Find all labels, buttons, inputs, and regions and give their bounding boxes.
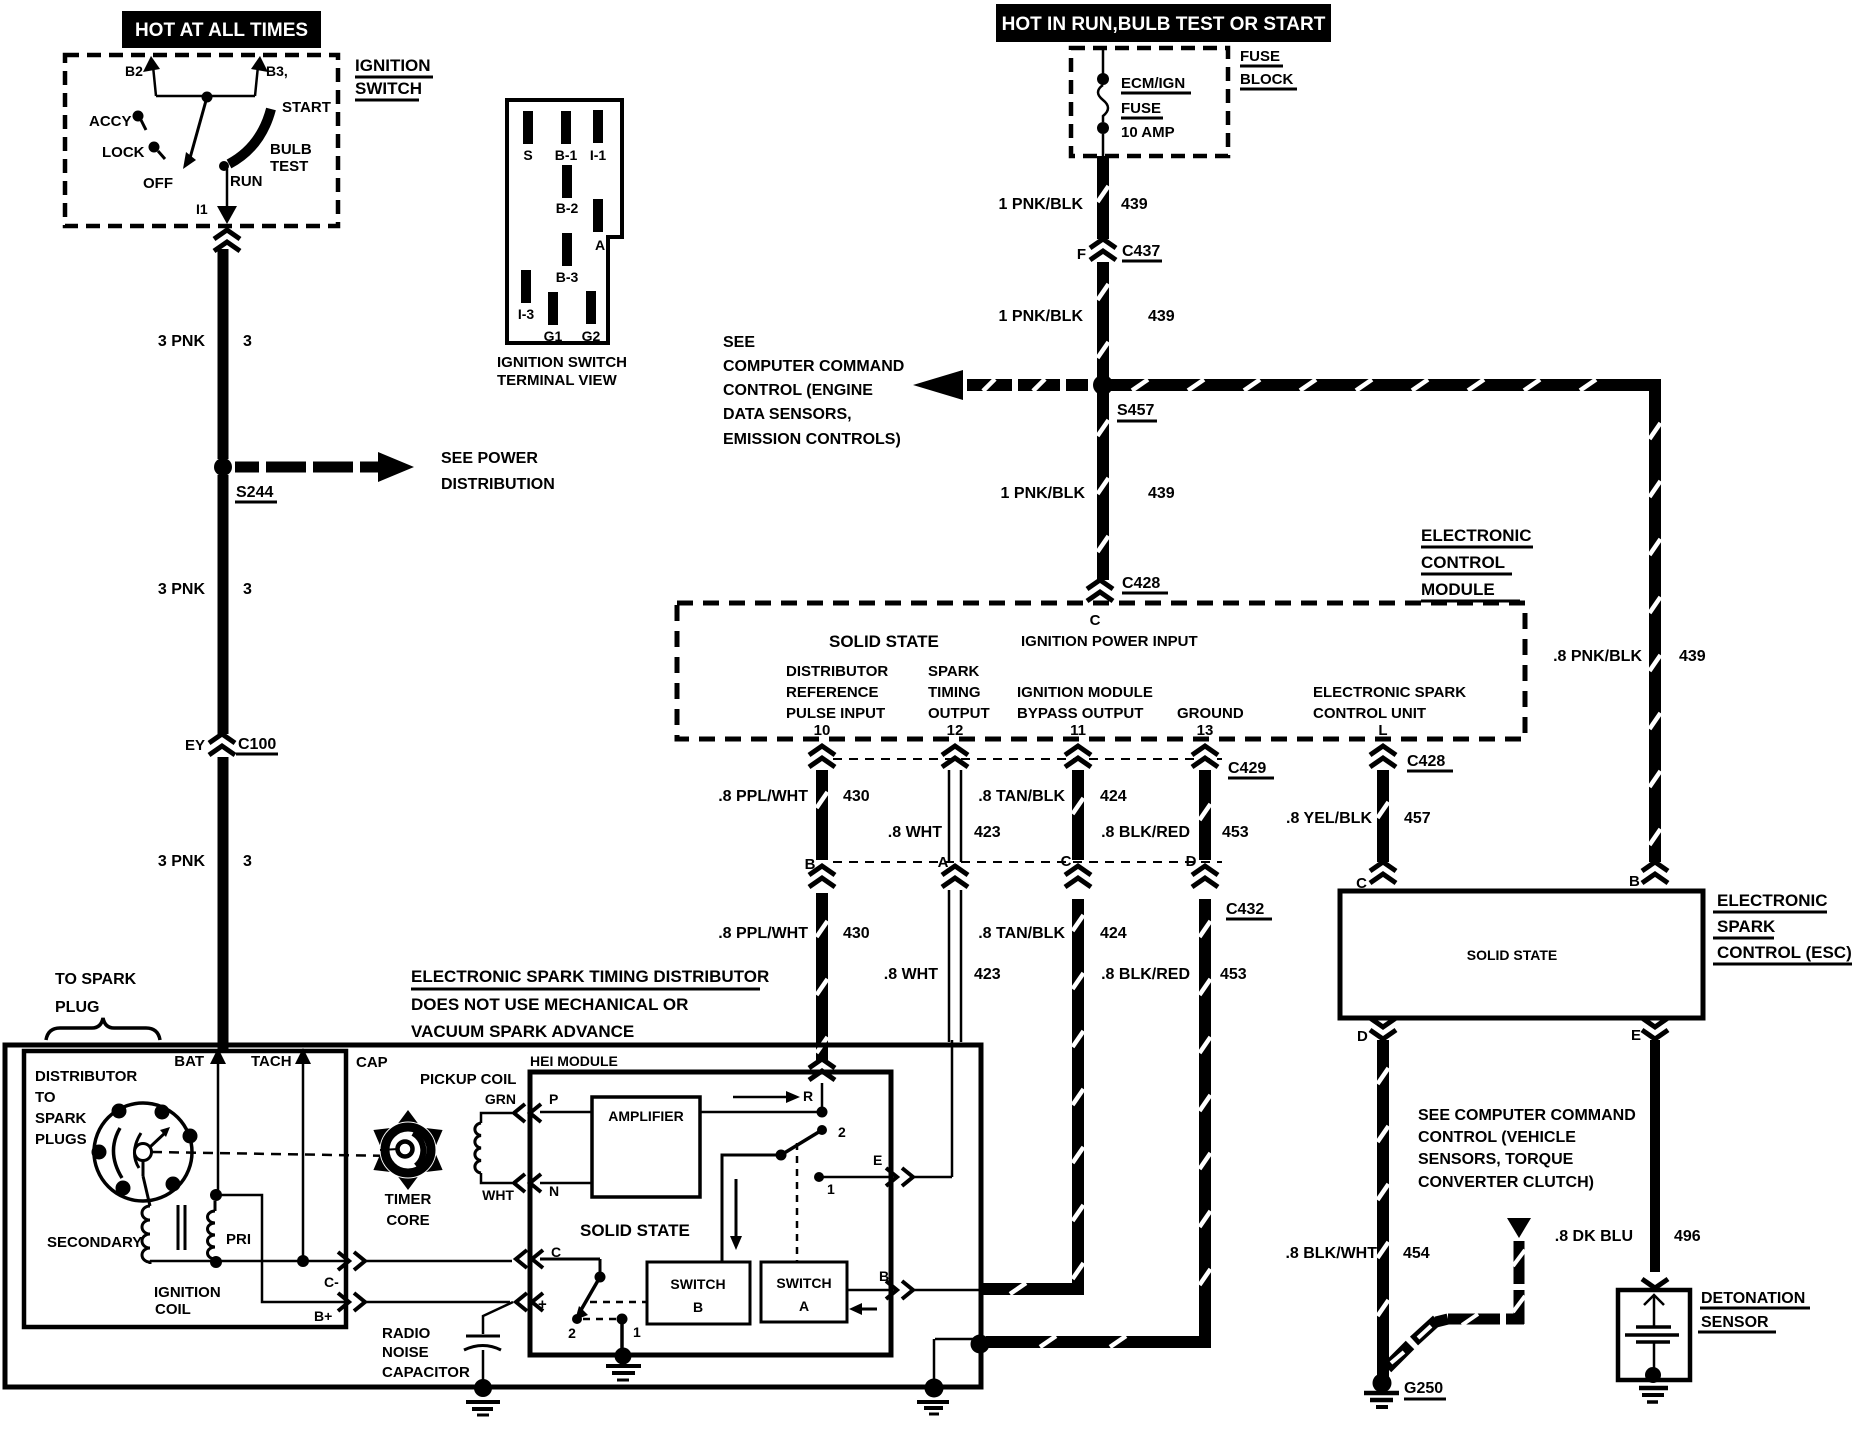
- svg-text:3: 3: [243, 853, 252, 870]
- svg-text:GRN: GRN: [485, 1091, 516, 1107]
- svg-text:B-3: B-3: [556, 269, 579, 285]
- svg-text:1 PNK/BLK: 1 PNK/BLK: [999, 308, 1084, 325]
- svg-text:HOT IN RUN,BULB TEST OR START: HOT IN RUN,BULB TEST OR START: [1002, 14, 1326, 35]
- svg-text:TACH: TACH: [251, 1053, 292, 1070]
- HEI pin C: [516, 1244, 600, 1275]
- svg-text:OUTPUT: OUTPUT: [928, 705, 990, 722]
- wire 439 horizontal run to ESC: [1093, 375, 1706, 862]
- svg-text:EY: EY: [185, 737, 205, 754]
- svg-text:B3,: B3,: [266, 63, 288, 79]
- ignition coil and cap box: [24, 1051, 346, 1327]
- wire 439 segment 3: [1001, 392, 1175, 580]
- terminal G1 of ignition switch connector: [544, 292, 563, 344]
- svg-text:TERMINAL VIEW: TERMINAL VIEW: [497, 372, 618, 389]
- svg-text:IGNITION POWER INPUT: IGNITION POWER INPUT: [1021, 633, 1198, 650]
- svg-text:SWITCH: SWITCH: [776, 1275, 831, 1291]
- svg-text:HOT AT ALL TIMES: HOT AT ALL TIMES: [135, 20, 308, 41]
- pickup coil: [420, 1071, 516, 1203]
- svg-text:DATA SENSORS,: DATA SENSORS,: [723, 406, 852, 423]
- svg-text:3 PNK: 3 PNK: [158, 853, 206, 870]
- dashed arrow to power distribution: [235, 452, 414, 482]
- connector C432 row: [805, 853, 1272, 919]
- svg-text:PICKUP COIL: PICKUP COIL: [420, 1071, 516, 1088]
- svg-text:3 PNK: 3 PNK: [158, 333, 206, 350]
- svg-text:F: F: [1077, 246, 1086, 263]
- svg-text:CONTROL (VEHICLE: CONTROL (VEHICLE: [1418, 1129, 1576, 1146]
- terminal BAT: [174, 1048, 226, 1192]
- svg-text:WHT: WHT: [482, 1187, 514, 1203]
- svg-text:SPARK: SPARK: [1717, 917, 1776, 936]
- svg-text:C428: C428: [1407, 753, 1445, 770]
- svg-text:E: E: [873, 1152, 882, 1168]
- svg-text:START: START: [282, 99, 331, 116]
- svg-text:SOLID STATE: SOLID STATE: [1467, 947, 1557, 963]
- distributor housing ground: [917, 1335, 990, 1415]
- svg-text:3 PNK: 3 PNK: [158, 581, 206, 598]
- svg-text:I-3: I-3: [518, 306, 535, 322]
- svg-text:G1: G1: [544, 328, 563, 344]
- contact OFF: [143, 175, 173, 192]
- svg-text:PLUGS: PLUGS: [35, 1131, 87, 1148]
- svg-text:D: D: [1186, 853, 1197, 870]
- svg-text:SOLID STATE: SOLID STATE: [580, 1221, 690, 1240]
- splice S457: [1094, 376, 1157, 421]
- svg-text:10: 10: [814, 722, 831, 739]
- HEI module box: [530, 1053, 891, 1355]
- ESC pin E: [1631, 1018, 1668, 1044]
- svg-text:SEE: SEE: [723, 334, 755, 351]
- svg-text:SEE POWER: SEE POWER: [441, 450, 538, 467]
- svg-text:3: 3: [243, 333, 252, 350]
- svg-text:ELECTRONIC: ELECTRONIC: [1421, 526, 1532, 545]
- svg-text:C429: C429: [1228, 760, 1266, 777]
- svg-text:B: B: [693, 1299, 703, 1315]
- connector C428 at ECM: [1087, 575, 1168, 601]
- svg-text:10 AMP: 10 AMP: [1121, 124, 1175, 141]
- svg-text:C: C: [1061, 853, 1072, 870]
- HEI pin plus: [516, 1293, 647, 1313]
- ECM pin 12 spark timing output: [928, 663, 990, 739]
- svg-text:ACCY: ACCY: [89, 113, 132, 130]
- svg-text:TO SPARK: TO SPARK: [55, 971, 137, 988]
- svg-text:D: D: [1357, 1028, 1368, 1045]
- svg-text:1: 1: [633, 1324, 641, 1340]
- label SEE POWER DISTRIBUTION: [441, 450, 555, 493]
- ignition switch terminal B2: [125, 56, 160, 96]
- terminal B-2 of ignition switch connector: [556, 165, 579, 216]
- svg-text:ELECTRONIC SPARK TIMING DISTRI: ELECTRONIC SPARK TIMING DISTRIBUTOR: [411, 967, 769, 986]
- svg-text:SENSOR: SENSOR: [1701, 1314, 1769, 1331]
- wire 453 lower: [986, 899, 1247, 1347]
- switch B box: [647, 1262, 750, 1324]
- svg-text:NOISE: NOISE: [382, 1344, 429, 1361]
- svg-text:439: 439: [1148, 485, 1175, 502]
- svg-text:SEE COMPUTER COMMAND: SEE COMPUTER COMMAND: [1418, 1107, 1636, 1124]
- svg-text:496: 496: [1674, 1228, 1701, 1245]
- wire HEI pin E: [823, 1040, 952, 1186]
- terminal S of ignition switch connector: [523, 111, 533, 163]
- svg-text:N: N: [549, 1183, 559, 1199]
- label SEE COMPUTER COMMAND CONTROL ENGINE: [723, 334, 904, 448]
- connector at ignition switch output: [214, 230, 240, 251]
- svg-text:E: E: [1631, 1027, 1641, 1044]
- svg-text:A: A: [799, 1298, 809, 1314]
- contact RUN: [219, 161, 263, 208]
- terminal B-1 of ignition switch connector: [555, 111, 578, 163]
- wire 454: [1285, 1040, 1429, 1377]
- HEI pin R arrow and label: [733, 1088, 813, 1104]
- pickup coil connector GRN: [514, 1104, 541, 1122]
- svg-text:11: 11: [1070, 722, 1086, 739]
- distributor cap with rotor: [92, 1103, 198, 1201]
- svg-text:.8 TAN/BLK: .8 TAN/BLK: [978, 788, 1065, 805]
- svg-text:.8 WHT: .8 WHT: [884, 966, 938, 983]
- svg-text:C437: C437: [1122, 243, 1160, 260]
- label IGNITION COIL: [154, 1284, 221, 1318]
- power feed banner HOT IN RUN BULB TEST OR START: [996, 4, 1331, 42]
- coil core: [178, 1205, 185, 1250]
- svg-text:FUSE: FUSE: [1121, 100, 1161, 117]
- svg-text:C432: C432: [1226, 901, 1264, 918]
- svg-text:454: 454: [1403, 1245, 1430, 1262]
- contact LOCK: [102, 142, 165, 162]
- svg-text:BAT: BAT: [174, 1053, 204, 1070]
- svg-text:439: 439: [1121, 196, 1148, 213]
- svg-text:ECM/IGN: ECM/IGN: [1121, 75, 1185, 92]
- ignition switch terminal B3: [251, 56, 288, 96]
- svg-text:CONTROL UNIT: CONTROL UNIT: [1313, 705, 1426, 722]
- svg-text:CORE: CORE: [386, 1212, 429, 1229]
- svg-text:.8 YEL/BLK: .8 YEL/BLK: [1286, 810, 1372, 827]
- label ELECTRONIC CONTROL MODULE: [1421, 526, 1533, 601]
- svg-text:.8 WHT: .8 WHT: [888, 824, 942, 841]
- ECM pin L electronic spark control unit: [1313, 684, 1466, 739]
- svg-text:.8 PPL/WHT: .8 PPL/WHT: [718, 788, 808, 805]
- svg-text:G250: G250: [1404, 1380, 1443, 1397]
- HEI pin N: [540, 1183, 592, 1199]
- svg-text:453: 453: [1222, 824, 1249, 841]
- svg-text:DISTRIBUTION: DISTRIBUTION: [441, 476, 555, 493]
- label BULB TEST: [270, 141, 312, 175]
- svg-text:.8 DK BLU: .8 DK BLU: [1555, 1228, 1633, 1245]
- label ELECTRONIC SPARK CONTROL ESC: [1713, 891, 1852, 964]
- caption ignition switch terminal view: [497, 354, 627, 389]
- svg-text:DISTRIBUTOR: DISTRIBUTOR: [786, 663, 888, 680]
- svg-text:S: S: [523, 147, 532, 163]
- svg-text:IGNITION: IGNITION: [355, 56, 431, 75]
- svg-text:ELECTRONIC: ELECTRONIC: [1717, 891, 1828, 910]
- svg-text:S244: S244: [236, 484, 273, 501]
- svg-text:CONVERTER CLUTCH): CONVERTER CLUTCH): [1418, 1174, 1594, 1191]
- label IGNITION SWITCH: [355, 56, 433, 100]
- svg-text:CAP: CAP: [356, 1054, 388, 1071]
- terminal I1 arrow: [196, 201, 237, 224]
- svg-text:TEST: TEST: [270, 158, 308, 175]
- wire 424 lower: [978, 899, 1127, 1294]
- off-page arrow to computer command control: [1387, 1218, 1531, 1368]
- svg-text:13: 13: [1197, 722, 1214, 739]
- ESC pin D: [1357, 1018, 1396, 1045]
- wire 423 upper (white): [888, 770, 1001, 862]
- connector C429 row: [809, 746, 1274, 778]
- svg-text:RUN: RUN: [230, 173, 263, 190]
- label CAP: [356, 1054, 388, 1071]
- ESC pin C: [1356, 862, 1396, 892]
- svg-text:S457: S457: [1117, 402, 1154, 419]
- splice S244: [214, 458, 277, 502]
- svg-text:I1: I1: [196, 201, 208, 217]
- ignition switch wiper arm: [183, 92, 213, 170]
- svg-text:ELECTRONIC SPARK: ELECTRONIC SPARK: [1313, 684, 1466, 701]
- fuse ECM/IGN 10 AMP: [1097, 48, 1191, 156]
- terminal TACH: [251, 1048, 311, 1260]
- svg-text:.8 TAN/BLK: .8 TAN/BLK: [978, 925, 1065, 942]
- HEI internal switch lower: [568, 1272, 641, 1354]
- svg-text:CONTROL (ENGINE: CONTROL (ENGINE: [723, 382, 873, 399]
- connector C100: [185, 734, 278, 755]
- svg-text:2: 2: [838, 1124, 846, 1140]
- radio noise capacitor: [382, 1302, 513, 1415]
- svg-text:C: C: [1356, 875, 1367, 892]
- connector C428 at pin L: [1370, 746, 1453, 771]
- svg-text:C100: C100: [238, 736, 276, 753]
- svg-text:CAPACITOR: CAPACITOR: [382, 1364, 470, 1381]
- wire 430 upper: [718, 770, 870, 860]
- svg-text:.8 PNK/BLK: .8 PNK/BLK: [1553, 648, 1642, 665]
- wire B+ to HEI module plus: [366, 1301, 510, 1304]
- svg-text:PRI: PRI: [226, 1231, 251, 1248]
- svg-text:B-1: B-1: [555, 147, 578, 163]
- svg-text:CONTROL: CONTROL: [1421, 553, 1505, 572]
- label FUSE BLOCK: [1240, 48, 1297, 89]
- svg-text:OFF: OFF: [143, 175, 173, 192]
- svg-text:TO: TO: [35, 1089, 56, 1106]
- svg-text:G2: G2: [582, 328, 601, 344]
- svg-text:BULB: BULB: [270, 141, 312, 158]
- svg-text:DISTRIBUTOR: DISTRIBUTOR: [35, 1068, 137, 1085]
- wire B2-B3 bus: [156, 95, 255, 98]
- wire amplifier to switch node: [700, 1107, 828, 1118]
- svg-text:VACUUM SPARK ADVANCE: VACUUM SPARK ADVANCE: [411, 1022, 634, 1041]
- ESC box: [1340, 891, 1703, 1018]
- label SOLID STATE HEI: [580, 1221, 690, 1240]
- HEI module ground: [606, 1348, 641, 1381]
- terminal A of ignition switch connector: [593, 199, 605, 253]
- svg-text:C428: C428: [1122, 575, 1160, 592]
- label DETONATION SENSOR: [1698, 1290, 1810, 1332]
- wire 424 upper: [978, 770, 1127, 860]
- svg-text:.8 BLK/RED: .8 BLK/RED: [1101, 824, 1190, 841]
- svg-text:SPARK: SPARK: [35, 1110, 87, 1127]
- svg-text:IGNITION SWITCH: IGNITION SWITCH: [497, 354, 627, 371]
- ignition switch SW1 dashed box: [65, 55, 338, 226]
- svg-text:B-2: B-2: [556, 200, 579, 216]
- svg-text:439: 439: [1679, 648, 1706, 665]
- detonation sensor: [1618, 1290, 1690, 1402]
- svg-text:AMPLIFIER: AMPLIFIER: [608, 1108, 683, 1124]
- svg-text:424: 424: [1100, 925, 1127, 942]
- wire 457: [1286, 770, 1431, 862]
- wire 439 segment 1: [999, 156, 1148, 239]
- svg-text:423: 423: [974, 824, 1001, 841]
- wire 3 PNK segment 3: [158, 757, 252, 1049]
- svg-text:.8 BLK/WHT: .8 BLK/WHT: [1285, 1245, 1377, 1262]
- left arrow at switch A: [849, 1303, 877, 1315]
- wire 496: [1555, 1040, 1701, 1272]
- svg-text:SPARK: SPARK: [928, 663, 980, 680]
- svg-text:PULSE INPUT: PULSE INPUT: [786, 705, 885, 722]
- svg-text:1 PNK/BLK: 1 PNK/BLK: [1001, 485, 1086, 502]
- svg-text:SWITCH: SWITCH: [355, 79, 422, 98]
- svg-text:B: B: [805, 856, 816, 873]
- timer core star wheel: [373, 1110, 442, 1229]
- svg-text:1 PNK/BLK: 1 PNK/BLK: [999, 196, 1084, 213]
- svg-text:12: 12: [947, 722, 964, 739]
- svg-text:453: 453: [1220, 966, 1247, 983]
- svg-text:A: A: [595, 237, 605, 253]
- wire HEI pin B: [847, 1268, 979, 1299]
- svg-text:C: C: [1090, 612, 1101, 629]
- svg-text:423: 423: [974, 966, 1001, 983]
- power feed banner HOT AT ALL TIMES: [122, 11, 321, 48]
- label TO SPARK PLUG: [46, 971, 160, 1040]
- wire 423 lower (white): [884, 890, 1001, 1042]
- switch A box: [761, 1262, 847, 1322]
- svg-text:RADIO: RADIO: [382, 1325, 431, 1342]
- wire C- to HEI module C: [366, 1260, 512, 1263]
- contact START and bulb-test arc: [229, 99, 331, 164]
- svg-text:FUSE: FUSE: [1240, 48, 1280, 65]
- wire 3 PNK segment 1: [158, 249, 252, 459]
- svg-text:2: 2: [568, 1325, 576, 1341]
- svg-text:P: P: [549, 1091, 558, 1107]
- svg-text:DETONATION: DETONATION: [1701, 1290, 1805, 1307]
- wire 439 segment 2: [999, 262, 1175, 378]
- svg-text:DOES NOT USE MECHANICAL OR: DOES NOT USE MECHANICAL OR: [411, 995, 688, 1014]
- svg-text:.8 PPL/WHT: .8 PPL/WHT: [718, 925, 808, 942]
- svg-text:MODULE: MODULE: [1421, 580, 1495, 599]
- svg-text:BLOCK: BLOCK: [1240, 71, 1293, 88]
- wire 453 upper: [1101, 770, 1249, 860]
- HEI internal switch upper: [722, 1124, 846, 1262]
- svg-text:LOCK: LOCK: [102, 144, 145, 161]
- ground G250: [1364, 1374, 1446, 1408]
- connector at detonation sensor: [1642, 1279, 1668, 1288]
- dashed rotor shaft line: [152, 1152, 396, 1156]
- connector C437: [1077, 239, 1162, 263]
- svg-text:3: 3: [243, 581, 252, 598]
- heading ELECTRONIC SPARK TIMING DISTRIBUTOR: [411, 967, 769, 1041]
- svg-text:CONTROL (ESC): CONTROL (ESC): [1717, 943, 1852, 962]
- down arrow in HEI module: [730, 1179, 742, 1250]
- HEI pin R connector: [809, 1059, 835, 1112]
- svg-text:SOLID STATE: SOLID STATE: [829, 632, 939, 651]
- ECM internal labels: [829, 612, 1198, 651]
- wire 3 PNK segment 2: [158, 475, 252, 734]
- contact ACCY: [89, 111, 146, 131]
- wire coil B+ output: [216, 1195, 365, 1324]
- terminal B-3 of ignition switch connector: [556, 233, 579, 285]
- ECM pin 10 distributor reference pulse input: [786, 663, 888, 739]
- distributor housing box: [5, 1045, 981, 1387]
- svg-text:SWITCH: SWITCH: [670, 1276, 725, 1292]
- ignition coil primary winding: [208, 1189, 252, 1268]
- svg-text:IGNITION MODULE: IGNITION MODULE: [1017, 684, 1153, 701]
- ECM pin 11 ignition module bypass output: [1017, 684, 1153, 739]
- svg-text:COIL: COIL: [155, 1301, 191, 1318]
- svg-text:TIMER: TIMER: [385, 1191, 432, 1208]
- svg-text:424: 424: [1100, 788, 1127, 805]
- terminal I-3 of ignition switch connector: [518, 270, 535, 322]
- fuse block dashed box: [1071, 48, 1228, 156]
- svg-text:457: 457: [1404, 810, 1431, 827]
- ESC pin B: [1629, 862, 1668, 890]
- svg-text:I-1: I-1: [590, 147, 607, 163]
- svg-text:SENSORS, TORQUE: SENSORS, TORQUE: [1418, 1151, 1574, 1168]
- svg-text:TIMING: TIMING: [928, 684, 981, 701]
- svg-text:R: R: [803, 1088, 813, 1104]
- svg-text:GROUND: GROUND: [1177, 705, 1244, 722]
- svg-text:REFERENCE: REFERENCE: [786, 684, 879, 701]
- terminal G2 of ignition switch connector: [582, 291, 601, 344]
- svg-text:.8 BLK/RED: .8 BLK/RED: [1101, 966, 1190, 983]
- svg-text:IGNITION: IGNITION: [154, 1284, 221, 1301]
- svg-text:SECONDARY: SECONDARY: [47, 1234, 142, 1251]
- svg-text:PLUG: PLUG: [55, 999, 99, 1016]
- svg-text:HEI MODULE: HEI MODULE: [530, 1053, 618, 1069]
- label DISTRIBUTOR TO SPARK PLUGS: [35, 1068, 137, 1148]
- amplifier U1: [592, 1097, 700, 1197]
- svg-text:EMISSION CONTROLS): EMISSION CONTROLS): [723, 431, 901, 448]
- svg-text:A: A: [938, 854, 949, 871]
- wire coil C- output: [150, 1252, 365, 1290]
- dashed arrow wire to computer command control: [913, 370, 1088, 400]
- ECM pin 13 ground: [1177, 705, 1244, 739]
- svg-text:BYPASS OUTPUT: BYPASS OUTPUT: [1017, 705, 1143, 722]
- ignition coil secondary winding: [47, 1160, 150, 1264]
- svg-text:430: 430: [843, 925, 870, 942]
- svg-text:B2: B2: [125, 63, 143, 79]
- terminal I-1 of ignition switch connector: [590, 110, 607, 163]
- ignition switch terminal view connector outline: [507, 100, 622, 343]
- svg-text:B: B: [1629, 873, 1640, 890]
- svg-text:COMPUTER COMMAND: COMPUTER COMMAND: [723, 358, 904, 375]
- pickup coil connector WHT: [514, 1174, 541, 1192]
- label SEE COMPUTER COMMAND CONTROL VEHICLE: [1418, 1107, 1636, 1191]
- HEI pin P: [540, 1091, 592, 1112]
- ECM dashed box: [677, 603, 1525, 739]
- svg-text:L: L: [1378, 722, 1387, 739]
- svg-text:430: 430: [843, 788, 870, 805]
- svg-text:C-: C-: [324, 1274, 339, 1290]
- svg-text:1: 1: [827, 1181, 835, 1197]
- wire 430 lower: [718, 893, 870, 1060]
- svg-text:B+: B+: [314, 1308, 332, 1324]
- svg-text:439: 439: [1148, 308, 1175, 325]
